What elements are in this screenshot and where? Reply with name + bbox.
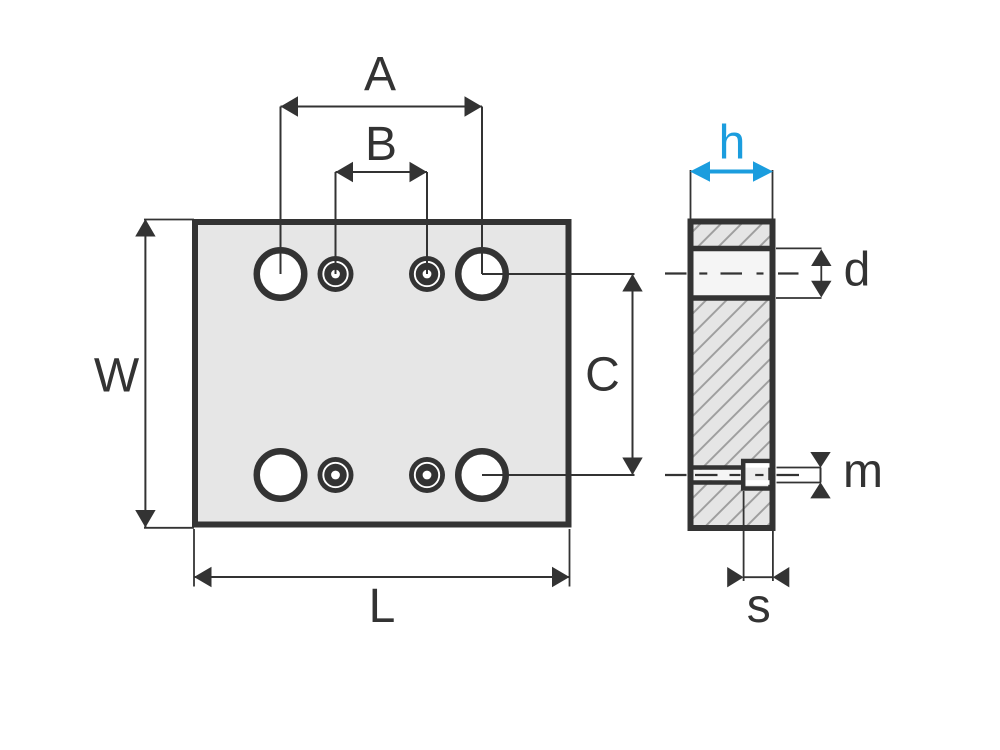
svg-text:m: m: [843, 445, 883, 498]
svg-text:h: h: [719, 117, 746, 170]
svg-text:L: L: [369, 580, 396, 633]
svg-text:d: d: [844, 244, 871, 297]
svg-text:A: A: [364, 48, 396, 101]
svg-text:s: s: [747, 580, 771, 633]
svg-text:C: C: [585, 349, 620, 402]
svg-text:B: B: [365, 118, 397, 171]
svg-text:W: W: [94, 350, 140, 403]
